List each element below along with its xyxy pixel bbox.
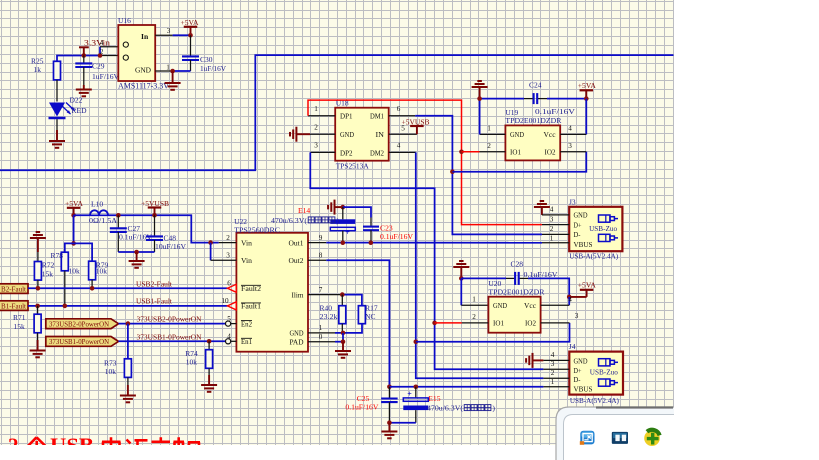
wire 3.3Vin net (R25 top to U16 pins 4/2) (57, 47, 100, 62)
svg-text:B2-Fault: B2-Fault (1, 284, 27, 293)
node GND/R40 junction (341, 331, 346, 336)
wire +5VA to U19 Vcc (560, 99, 586, 135)
wire VBUS rail to J4 (389, 386, 543, 388)
ground below C25 (381, 423, 397, 439)
svg-text:D-: D- (574, 231, 582, 239)
pin number 6 U18 (397, 105, 401, 113)
red annotation 2x USB power text (8, 433, 200, 457)
pin number 4 J3 (550, 206, 554, 214)
pin number 3 J4 (551, 360, 555, 368)
op-amp U19 body TPD2E001DZDR (505, 108, 562, 161)
svg-text:3: 3 (226, 252, 230, 260)
svg-text:3: 3 (314, 142, 318, 150)
wire U16 pin2 stub (100, 55, 118, 57)
pin number 4 U16 (100, 39, 104, 47)
node C24 left junction (477, 96, 482, 101)
wire to R78 (65, 243, 74, 252)
wire USB1-Fault net (28, 305, 228, 307)
svg-text:15k: 15k (14, 322, 26, 331)
pin number 3 U20 (575, 312, 579, 320)
capacitor C24 (529, 80, 576, 116)
node +5VA/C30 junction (188, 33, 193, 38)
svg-text:IN: IN (376, 131, 385, 139)
svg-text:GND: GND (574, 212, 588, 220)
svg-text:E15: E15 (428, 394, 440, 403)
icon blue window with X (580, 431, 595, 445)
svg-text:D+: D+ (574, 221, 582, 229)
node R78 junction USB1 (63, 304, 68, 309)
pin number 6 U22 (227, 280, 231, 288)
svg-text:Vin: Vin (241, 239, 252, 247)
wire U20 IO1 stub (462, 322, 489, 324)
wire U22 Vin pin3 branch (211, 243, 237, 261)
resistor R78 (51, 251, 81, 275)
capacitor C29 (75, 56, 119, 90)
svg-text:+5VA: +5VA (181, 18, 200, 27)
resistor R72 (34, 260, 54, 280)
svg-text:5: 5 (227, 315, 231, 323)
svg-text:470u/6.3V(: 470u/6.3V( (271, 216, 307, 225)
svg-text:Ilim: Ilim (292, 291, 304, 299)
overlay window corner (556, 406, 819, 460)
capacitor C25 (345, 387, 397, 423)
svg-text:0.1uF/16V: 0.1uF/16V (524, 270, 559, 279)
node R73 branch junction (126, 321, 131, 326)
pin number 0 U22 PAD (319, 333, 323, 341)
pin number 4 J4 (551, 351, 555, 359)
wire U18 DP2 net to J4 D+ (310, 152, 543, 369)
wire R74 to ground (208, 368, 210, 385)
pin number 1 U16 (166, 63, 170, 71)
node DP1/IO1 red junction (459, 150, 464, 155)
svg-text:2: 2 (551, 369, 555, 377)
power port 3.3Vin (79, 38, 110, 55)
wire Out2 net down (308, 260, 389, 387)
ground at E14 rotated (328, 200, 343, 215)
svg-text:D-: D- (574, 376, 582, 384)
pin number 4 U20 (568, 296, 572, 304)
port 373USB2-0PowerON (46, 319, 119, 329)
node 3.3Vin junction (82, 53, 87, 58)
node DM1/J3-D- junction (450, 169, 455, 174)
svg-text:3: 3 (568, 142, 572, 150)
svg-text:1k: 1k (34, 65, 42, 74)
wire 373USB2-0PowerON net (119, 323, 226, 325)
net label 373USB2-0PowerON (137, 314, 202, 323)
node E15 rail junction (414, 385, 419, 390)
wire C24 rail (480, 98, 587, 100)
ground at U18 GND rotated (290, 127, 310, 142)
pin number 2 U20 (472, 313, 476, 321)
node C27 junction (116, 213, 121, 218)
svg-text:TPD2E001DZDR: TPD2E001DZDR (505, 116, 562, 125)
port USB1-Fault (0, 301, 28, 311)
wire D22 to ground (56, 119, 58, 141)
svg-text:USB-A(5V2.4A): USB-A(5V2.4A) (569, 252, 618, 261)
svg-text:En2: En2 (241, 320, 252, 328)
svg-text:GND: GND (493, 302, 507, 310)
wire +5VA down to R78/R79 (73, 215, 75, 243)
wire J3 VBUS stub (542, 242, 569, 244)
resistor R25 (31, 57, 61, 80)
svg-text:B1-Fault: B1-Fault (1, 301, 27, 310)
node +5VA/C24 junction (584, 96, 589, 101)
capacitor E15 polarized (403, 387, 495, 423)
svg-text:C24: C24 (529, 80, 542, 89)
pin number 2 J4 (551, 369, 555, 377)
wire U19 GND to C24 rail (480, 99, 506, 135)
power port +5VUSB at U18 (402, 117, 430, 134)
wire U18 DM1 net to J3 D- (389, 116, 542, 235)
svg-text:Fault2: Fault2 (241, 285, 261, 293)
svg-text:6: 6 (227, 280, 231, 288)
wire R71 to ground (37, 333, 39, 351)
power port +5VA top (181, 18, 200, 35)
wire U16 pin3 to +5VA (155, 34, 190, 36)
svg-text:Vin: Vin (241, 257, 252, 265)
svg-text:RED: RED (72, 106, 88, 115)
svg-text:Out2: Out2 (289, 257, 304, 265)
pin number 3 U22 (226, 252, 230, 260)
power port +5VUSB left (141, 199, 169, 216)
svg-text:+5VA: +5VA (65, 199, 84, 208)
svg-text:): ) (492, 404, 495, 413)
svg-text:D+: D+ (574, 367, 582, 375)
svg-text:470u/6.3V(: 470u/6.3V( (427, 404, 463, 413)
op-amp U20 body TPD2E001DZDR (488, 279, 545, 333)
op-amp U22 body TPS2560DRC (234, 217, 308, 352)
svg-text:R71: R71 (13, 313, 26, 322)
svg-text:USB2-Fault: USB2-Fault (136, 279, 173, 288)
svg-text:VBUS: VBUS (574, 241, 593, 249)
wire U20 Vcc (541, 297, 570, 305)
svg-text:0.1uF/16V: 0.1uF/16V (380, 232, 414, 241)
svg-text:L10: L10 (91, 199, 103, 208)
svg-text:J3: J3 (569, 197, 576, 206)
ground at U16 GND (165, 71, 181, 90)
icon dark blue book (612, 432, 628, 444)
pin number 9 U22 (319, 234, 323, 242)
node R72 junction (36, 286, 41, 291)
node C25 ground junction (387, 420, 392, 425)
wire C25/E15 bottom (389, 422, 415, 424)
wire +5VUSB rail (108, 215, 219, 242)
svg-text:AMS1117-3.3V: AMS1117-3.3V (118, 81, 169, 90)
wire U20 GND (461, 278, 488, 305)
svg-text:USB-Zuo: USB-Zuo (590, 367, 618, 376)
wire red IO1 stub U20 (435, 322, 462, 324)
svg-text:373USB2-0PowerON: 373USB2-0PowerON (49, 319, 110, 328)
node R74 branch junction (207, 339, 212, 344)
ground above C24 rail (472, 81, 488, 99)
svg-text:DP2: DP2 (340, 149, 353, 157)
net label 373USB1-0PowerON (137, 332, 202, 341)
svg-text:3: 3 (550, 215, 554, 223)
svg-text:4: 4 (550, 206, 554, 214)
svg-text:3.3Vin: 3.3Vin (84, 38, 110, 47)
pin number 3 U18 (314, 142, 318, 150)
svg-text:6: 6 (397, 105, 401, 113)
svg-text:4: 4 (100, 39, 104, 47)
svg-text:2: 2 (314, 124, 318, 132)
pin number 7 U22 (319, 286, 323, 294)
svg-text:373USB2-0PowerON: 373USB2-0PowerON (137, 314, 202, 323)
net label USB2-Fault (136, 279, 173, 288)
svg-text:DM1: DM1 (370, 113, 384, 121)
wire J3 D- stub (542, 233, 569, 235)
svg-text:TPD2E001DZDR: TPD2E001DZDR (488, 288, 545, 297)
wire ground to R72 (37, 252, 39, 262)
pin number 2 U16 (100, 48, 104, 56)
wire C28 rail (461, 278, 569, 297)
op-amp U16 body AMS1117-3.3 (118, 16, 169, 90)
resistor R74 (185, 341, 212, 368)
op-amp U18 body TPS2513A (335, 98, 389, 170)
svg-text:3: 3 (575, 312, 579, 320)
wire red IO1 stub U19 (462, 151, 480, 153)
node PAD junction (341, 339, 346, 344)
capacitor C28 (511, 260, 559, 285)
svg-text:2: 2 (472, 313, 476, 321)
svg-text:1: 1 (550, 234, 554, 242)
connector J4 body USB-A (569, 342, 623, 405)
svg-text:2: 2 (226, 234, 230, 242)
wire J4 GND stub (543, 359, 569, 361)
wire Ilim net (308, 295, 362, 306)
svg-text:10k: 10k (96, 267, 108, 276)
svg-text:PAD: PAD (290, 339, 304, 347)
node Vin branch junction (208, 240, 213, 245)
pin number 1 J3 (550, 234, 554, 242)
svg-text:1uF/16V: 1uF/16V (200, 64, 227, 73)
wire R73 to ground (127, 377, 129, 395)
ground below R73 (120, 385, 136, 402)
svg-text:4: 4 (397, 142, 401, 150)
node junction pin2/pin4 (98, 53, 103, 58)
svg-text:1: 1 (551, 378, 555, 386)
pin number 1 U20 (472, 296, 476, 304)
svg-text:1uF/16V: 1uF/16V (92, 72, 120, 81)
capacitor E14 polarized (271, 206, 355, 243)
wire USB2-Fault net (28, 287, 228, 289)
wire En2 pin with circle (226, 321, 237, 326)
node R78/R79 branch junction (71, 241, 76, 246)
LED D22 (49, 95, 88, 118)
transistor Fault1 arrow symbol (228, 302, 237, 310)
svg-text:+5VUSB: +5VUSB (402, 117, 430, 126)
pin number 4 U22 (227, 333, 231, 341)
wire R73 branch (127, 324, 129, 359)
capacitor C48 (146, 215, 187, 252)
svg-text:Vcc: Vcc (524, 302, 536, 310)
wire U19 IO2 stub (560, 151, 586, 153)
wire U18 IN stub (389, 133, 417, 135)
svg-text:Vcc: Vcc (544, 131, 556, 139)
svg-text:): ) (336, 216, 339, 225)
wire R79 to USB2-Fault (91, 280, 93, 289)
pin number 1 U19 (487, 125, 491, 133)
svg-text:Out1: Out1 (289, 239, 304, 247)
pin number 1 J4 (551, 378, 555, 386)
svg-text:IO2: IO2 (545, 149, 556, 157)
wire E14 top to C23 (343, 207, 371, 227)
svg-text:GND: GND (510, 131, 524, 139)
wire 373USB1-0PowerON net (119, 340, 226, 342)
ground at J4 GND rotated (526, 353, 543, 368)
svg-text:9: 9 (319, 234, 323, 242)
svg-text:GND: GND (574, 357, 588, 365)
svg-text:10uF/16V: 10uF/16V (155, 242, 187, 251)
pin number 2 U19 (487, 142, 491, 150)
power port +5VA at C24 (578, 81, 597, 99)
net label USB1-Fault (136, 296, 173, 305)
pin number 1 U22 GND (319, 324, 323, 332)
svg-text:+5VA: +5VA (578, 81, 597, 90)
svg-text:VBUS: VBUS (574, 385, 593, 393)
pin number 1 U18 (314, 105, 318, 113)
svg-text:3: 3 (551, 360, 555, 368)
svg-text:Fault1: Fault1 (241, 303, 261, 311)
svg-text:10k: 10k (69, 266, 81, 275)
svg-text:In: In (141, 32, 149, 41)
svg-text:373USB1-0PowerON: 373USB1-0PowerON (137, 332, 202, 341)
node DM2/J4 IO2 junction (414, 340, 419, 345)
wire J3 GND stub (542, 214, 569, 216)
svg-text:3: 3 (167, 27, 171, 35)
resistor R40 (320, 295, 346, 324)
svg-text:0Ω/1.5A: 0Ω/1.5A (89, 216, 118, 225)
svg-text:1: 1 (166, 63, 170, 71)
wire U22 PAD net (308, 333, 343, 342)
node Out2/rail junction (387, 385, 392, 390)
port USB2-Fault (0, 284, 28, 294)
pin number 3 U16 (167, 27, 171, 35)
svg-text:GND: GND (135, 65, 152, 74)
wire U22 GND net (308, 324, 362, 333)
ground below C29 (76, 85, 92, 96)
svg-text:4: 4 (551, 351, 555, 359)
ground below U22 PAD (335, 342, 351, 358)
svg-text:4: 4 (227, 333, 231, 341)
resistor R79 (89, 260, 109, 280)
svg-text:C30: C30 (200, 55, 213, 64)
node E14 bottom junction (341, 240, 346, 245)
svg-text:GND: GND (340, 131, 354, 139)
ground below R71 (30, 340, 46, 357)
node +5VA/U20 Vcc junction (567, 295, 572, 300)
wire Out1 net to J3 VBUS (308, 242, 542, 244)
node R71 junction (35, 304, 40, 309)
svg-text:TPS2560DRC: TPS2560DRC (234, 225, 280, 234)
svg-text:10k: 10k (186, 357, 198, 366)
svg-text:10k: 10k (105, 367, 117, 376)
svg-text:R78: R78 (51, 251, 64, 260)
pin number 2 U18 (314, 124, 318, 132)
connector J3 body USB-A (569, 197, 622, 260)
svg-text:15k: 15k (42, 269, 54, 278)
pin number 3 J3 (550, 215, 554, 223)
svg-text:C28: C28 (511, 260, 524, 269)
svg-text:2: 2 (100, 48, 104, 56)
ground below D22 (49, 130, 65, 148)
pin number 10 U22 (221, 297, 229, 305)
ground above U20 rail (453, 261, 469, 278)
ground below R74 (201, 375, 217, 392)
svg-text:GND: GND (290, 330, 304, 338)
wire U16 pin1 GND stub (155, 70, 172, 72)
svg-text:+5VUSB: +5VUSB (141, 199, 169, 208)
svg-text:U16: U16 (118, 16, 131, 25)
wire cap ground rail (118, 251, 154, 253)
capacitor C23 (363, 224, 414, 243)
pin number 5 U18 (401, 125, 405, 133)
wire U19 IO1 stub (480, 151, 506, 153)
resistor R17 (358, 303, 377, 323)
wire U20 IO2 stub (541, 322, 570, 324)
svg-text:1: 1 (319, 324, 323, 332)
svg-text:+: + (407, 390, 412, 399)
pin number 4 U19 (568, 125, 572, 133)
svg-text:IO1: IO1 (510, 149, 521, 157)
ground above R72 (30, 232, 46, 252)
wire +5VA rail to L10 (74, 214, 90, 216)
pin number 2 U22 (226, 234, 230, 242)
node U20 GND rail junction (459, 276, 464, 281)
wire J4 D+ stub (543, 368, 569, 370)
svg-text:D22: D22 (70, 95, 83, 104)
wire R25 to D22 (56, 80, 58, 102)
node R79 junction (90, 286, 95, 291)
port 373USB1-0PowerON (46, 337, 119, 347)
pin number 5 U22 (227, 315, 231, 323)
wire IO2 feed to U20 (416, 323, 570, 342)
svg-text:1: 1 (487, 125, 491, 133)
svg-text:USB-A(5V2.4A): USB-A(5V2.4A) (570, 396, 619, 405)
capacitor C30 (173, 35, 227, 73)
svg-text:10: 10 (221, 297, 229, 305)
wire J4 D- stub (543, 377, 569, 379)
wire U16 pin4 stub (100, 46, 118, 48)
svg-text:0.1uF/16V: 0.1uF/16V (535, 107, 576, 116)
svg-text:2: 2 (550, 225, 554, 233)
svg-text:1: 1 (472, 296, 476, 304)
wire R72 to USB2-Fault (37, 280, 39, 288)
svg-text:4: 4 (568, 296, 572, 304)
svg-text:R72: R72 (42, 260, 55, 269)
wire IO2 feed to U19 (452, 152, 586, 172)
svg-text:4: 4 (568, 125, 572, 133)
svg-text:USB1-Fault: USB1-Fault (136, 296, 173, 305)
node E14 top junction (341, 205, 346, 210)
svg-text:J4: J4 (569, 342, 576, 351)
wire U18 DP1 red net to J3 D+ (308, 100, 542, 225)
node DP2/IO1 red junction (432, 321, 437, 326)
wire long +5V input net left (0, 55, 674, 170)
svg-text:23.2k: 23.2k (320, 312, 338, 321)
wire U18 GND stub (310, 133, 335, 135)
svg-text:En1: En1 (241, 338, 252, 346)
ground below C27/C48 (129, 252, 145, 268)
svg-text:0: 0 (319, 333, 323, 341)
svg-text:8: 8 (319, 252, 323, 260)
capacitor C27 (110, 215, 153, 252)
svg-text:IO2: IO2 (525, 320, 536, 328)
node +5VUSB/C48 junction (152, 213, 157, 218)
wire En1 pin with circle (226, 339, 237, 344)
wire R78 to USB1-Fault (64, 271, 66, 306)
svg-text:1: 1 (314, 105, 318, 113)
resistor R73 (104, 359, 131, 378)
